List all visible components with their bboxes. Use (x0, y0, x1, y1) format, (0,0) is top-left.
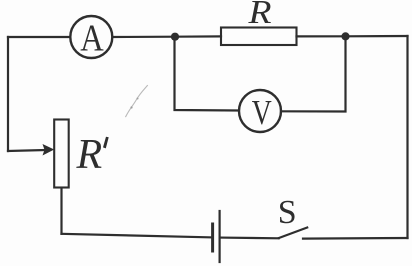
rheostat R' label prime mark (103, 137, 109, 149)
wire resistor to node 2 (297, 35, 346, 37)
wire node2 to top-right corner (346, 35, 408, 37)
wire switch to bottom-right corner (303, 237, 408, 240)
svg-text:S: S (278, 194, 297, 231)
wire rheostat arrow line (8, 150, 45, 151)
svg-text:R: R (76, 132, 103, 178)
node junction left (171, 33, 179, 41)
wire rheostat bottom vertical (60, 188, 62, 234)
wire node1 to resistor (175, 35, 221, 37)
rheostat R' body (54, 120, 68, 188)
resistor R body (221, 28, 297, 46)
wire voltmeter branch left vertical (175, 37, 239, 111)
ammeter A1 circle (70, 16, 112, 58)
wire left vertical (7, 37, 9, 151)
wire right vertical (406, 36, 408, 238)
svg-text:V: V (252, 93, 272, 132)
svg-text:A: A (80, 18, 104, 60)
wire top-left: left corner to ammeter (8, 36, 70, 38)
battery positive long plate (219, 211, 221, 262)
wire bottom to battery (62, 234, 213, 238)
svg-text:R: R (247, 0, 271, 31)
voltmeter V1 circle (239, 90, 281, 132)
switch S lever (279, 228, 307, 239)
battery negative short plate (211, 224, 214, 251)
wire voltmeter to branch right vertical (281, 36, 346, 111)
wire battery to switch (220, 237, 279, 240)
rheostat wiper arrowhead (43, 144, 55, 156)
wire ammeter to node 1 (113, 36, 176, 38)
node junction right (341, 32, 349, 40)
